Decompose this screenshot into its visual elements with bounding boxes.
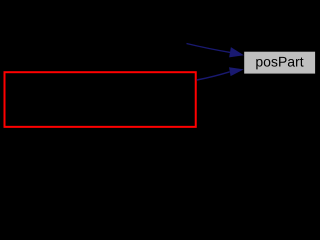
wire: edge from red caller box to posPart: [197, 72, 230, 80]
wire: edge from hidden upper caller node to posPart: [187, 44, 231, 53]
arrowhead of upper edge: [229, 47, 244, 57]
node posPart: grey filled box: [244, 52, 315, 74]
arrowhead of lower edge: [229, 67, 244, 76]
node: red-bordered caller box (truncated node, label invisible): [5, 72, 196, 127]
label posPart: [256, 57, 303, 70]
